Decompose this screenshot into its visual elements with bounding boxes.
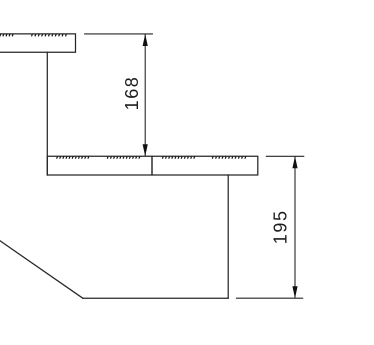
tread serration group 4 (middle board left) <box>107 157 139 159</box>
tread serration group 5 (middle board right) <box>162 157 194 159</box>
dimension line 195 (vertical) <box>294 156 296 298</box>
tread serration group 1 (top board, cut at left) <box>0 34 13 36</box>
arrowhead dim195 top (points up) <box>292 156 297 168</box>
extension line for dim 195 (bottom, at floor level) <box>236 297 303 299</box>
top board (upper step tread, cut off at left edge) <box>0 34 76 52</box>
tread serration group 3 (middle board left) <box>57 157 89 159</box>
arrowhead dim168 bottom (points down) <box>143 144 148 156</box>
tread serration group 6 (middle board right) <box>212 157 245 159</box>
middle board right section (lower step tread board 2) <box>152 156 258 175</box>
floor line <box>83 297 228 299</box>
middle board left section (lower step tread board 1) <box>47 156 152 175</box>
svg-text:168: 168 <box>122 76 142 111</box>
support line (riser) from top board to middle board <box>46 52 48 175</box>
arrowhead dim195 bottom (points down) <box>292 286 297 298</box>
diagonal stringer line (cut off at left edge) <box>0 240 83 298</box>
svg-text:195: 195 <box>271 209 291 244</box>
tread serration group 2 (top board) <box>32 34 67 36</box>
extension line for dim 168 (top, at upper board top level) <box>84 33 153 35</box>
arrowhead dim168 top (points up) <box>143 34 148 46</box>
right riser line from middle board down to floor <box>227 175 229 298</box>
dimension line 168 (vertical) <box>144 34 146 156</box>
extension line for dim 195 (top, at middle board top level) <box>266 155 305 157</box>
